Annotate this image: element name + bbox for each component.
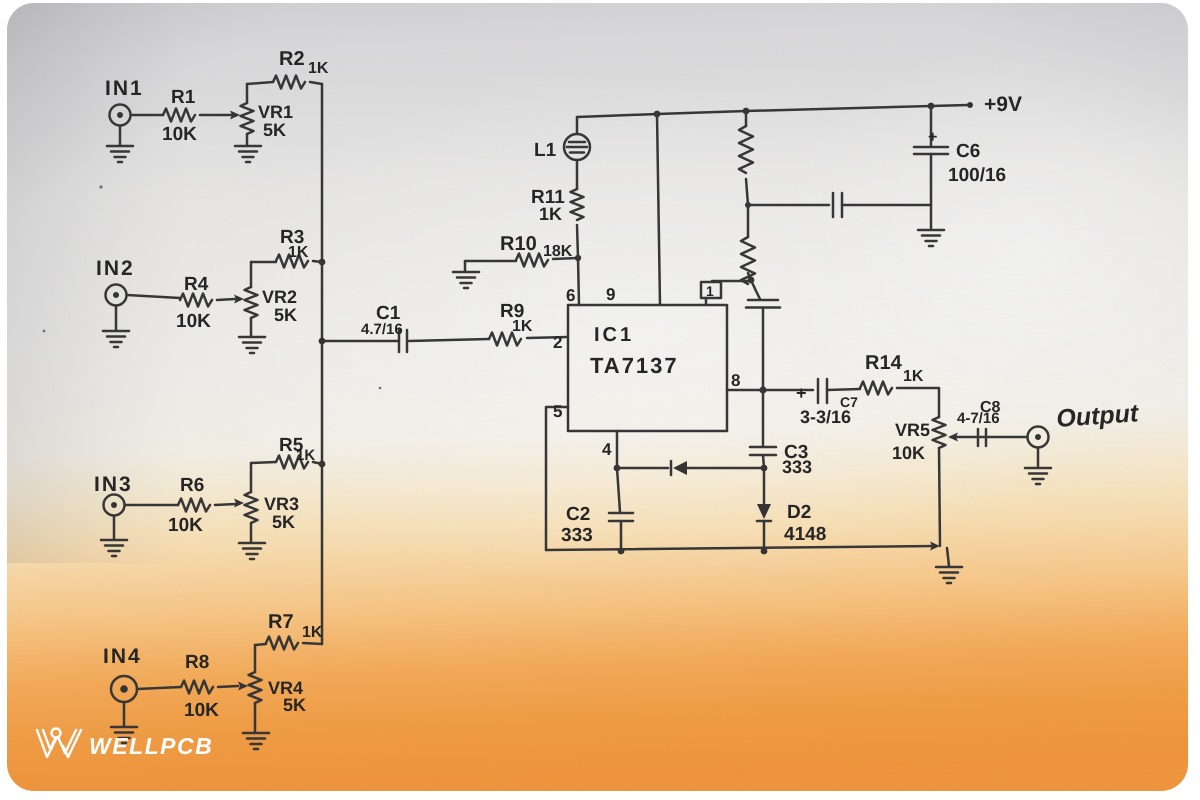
node: junction dot top bus over right chain (743, 108, 750, 115)
wire: VR4 top to R7 (255, 644, 266, 645)
svg-text:4: 4 (602, 440, 612, 459)
ground at C6 (918, 230, 944, 246)
svg-text:1K: 1K (903, 368, 924, 385)
resistor R1 (163, 109, 195, 122)
diode D2 (757, 504, 771, 521)
potentiometer VR2 (245, 287, 258, 318)
resistor R5 (276, 456, 308, 469)
ground at bottom bus right (947, 548, 949, 566)
svg-text:10K: 10K (168, 515, 203, 536)
node: bus junction under C2 (618, 548, 625, 555)
wire: tap to lower resistor (747, 205, 750, 237)
potentiometer VR5 (933, 417, 946, 448)
wire: VR5 bottom to bus (939, 448, 940, 546)
schematic ink (101, 76, 1051, 750)
svg-text:4148: 4148 (784, 524, 826, 545)
svg-text:10K: 10K (176, 311, 211, 332)
wire: IN1 to R1 (131, 114, 163, 117)
wire: VR4 top to R7 level (254, 645, 257, 672)
wire: R3 to bus (313, 261, 322, 262)
node: pin 4 junction (614, 465, 621, 472)
wire: C8 to output jack (986, 436, 1027, 439)
svg-text:VR3: VR3 (264, 494, 299, 514)
node: junction dot top bus at C6 (928, 103, 935, 110)
svg-text:D2: D2 (787, 502, 811, 523)
wire: ground to R10 (465, 260, 516, 263)
connector IN3 jack (104, 495, 125, 516)
diode D1 (671, 461, 687, 475)
svg-text:VR5: VR5 (895, 420, 930, 440)
wire: pin 1 into IC top (705, 298, 708, 305)
svg-text:IN2: IN2 (96, 257, 135, 280)
svg-text:R14: R14 (865, 352, 903, 374)
ground at R10 left (464, 261, 467, 271)
svg-text:1K: 1K (539, 204, 562, 224)
svg-text:+: + (928, 129, 937, 146)
svg-text:1K: 1K (308, 60, 329, 77)
wire: C3 to diode node (763, 455, 764, 468)
wire: pin4 node down to C2 (617, 468, 620, 512)
resistor R4 (180, 294, 212, 307)
pin 1 label box (701, 282, 721, 298)
wire: bus to C1 (322, 340, 399, 343)
resistor R14 (860, 382, 892, 395)
resistor upper right (739, 126, 753, 173)
capacitor C1 plates (399, 330, 407, 352)
logo WELLPCB (37, 729, 213, 760)
ground at VR2 (250, 318, 253, 336)
svg-text:VR2: VR2 (262, 287, 297, 307)
svg-text:100/16: 100/16 (948, 165, 1006, 186)
wire: +9V top supply bus (577, 106, 931, 117)
svg-text:R6: R6 (180, 475, 204, 496)
wire: node down to cap (751, 280, 760, 299)
wire: VR2 top to R3 (251, 261, 276, 264)
connector IN4 jack (111, 676, 137, 702)
svg-text:1: 1 (706, 283, 714, 299)
wire: node to D2 (763, 468, 766, 504)
wire: pin4 node to D1 (617, 467, 668, 470)
svg-text:1K: 1K (296, 447, 315, 464)
svg-text:R4: R4 (184, 274, 209, 295)
svg-text:333: 333 (782, 457, 812, 477)
svg-text:+9V: +9V (984, 93, 1022, 116)
svg-text:4-7/16: 4-7/16 (957, 410, 1000, 427)
potentiometer VR1 (241, 103, 254, 134)
resistor R7 (266, 637, 298, 650)
wire: C7 to R14 (827, 389, 860, 390)
node: tap junction to C6 line (745, 202, 751, 208)
resistor R2 (273, 76, 305, 89)
wire: cap to C6 vertical (842, 204, 931, 207)
capacitor C6 plates (914, 147, 948, 154)
wire: R8 to VR4 arrow (218, 686, 238, 687)
wire: bottom bus (546, 546, 935, 550)
wiper arrow VR5 (957, 436, 985, 439)
resistor R10 (516, 254, 548, 267)
svg-text:R7: R7 (268, 611, 294, 633)
resistor R11 (571, 189, 584, 220)
arrow: bus end (930, 542, 940, 551)
node: junction dot top bus over pin9 (654, 111, 661, 118)
wire: pin 1 horizontal (712, 280, 751, 283)
resistor R8 (181, 681, 213, 694)
node: bus dot at C1 (319, 338, 326, 345)
svg-text:3-3/16: 3-3/16 (800, 407, 851, 427)
node: junction R10/R11/pin6 (575, 255, 581, 261)
node: +9V terminal dot (967, 102, 973, 108)
svg-text:333: 333 (561, 525, 593, 546)
potentiometer VR4 (249, 672, 262, 703)
svg-text:R1: R1 (171, 87, 196, 108)
wire: pin 9 lead from bus to IC (657, 114, 660, 305)
node: junction D1/D2/C3 (761, 465, 768, 472)
potentiometer VR3 (245, 492, 258, 523)
svg-text:1K: 1K (288, 244, 309, 261)
wire: IN3 to R6 (125, 504, 178, 507)
ground at VR4 (254, 703, 257, 732)
connector IN2 jack (106, 285, 127, 306)
wire: stub to +9V terminal (931, 105, 968, 106)
svg-text:6: 6 (566, 286, 575, 305)
node: pin 8 junction (759, 386, 766, 393)
ground at IN4 (123, 702, 126, 726)
connector Output jack (1028, 427, 1049, 448)
svg-text:8: 8 (731, 371, 740, 390)
wire: R1 to VR1 arrow (200, 114, 231, 117)
ground at output jack (1037, 448, 1040, 468)
wire: R7 to bus corner (303, 643, 322, 644)
wire: pin 6 lead into IC (578, 258, 579, 305)
ground at VR1 (246, 134, 249, 145)
svg-text:2: 2 (553, 333, 562, 352)
resistor R3 (276, 255, 308, 268)
capacitor C7 plates (818, 379, 827, 403)
wire: VR1 top to R2 (247, 82, 273, 84)
capacitor C3 plates (750, 447, 776, 455)
wire: left mixing bus (321, 84, 324, 644)
svg-text:L1: L1 (534, 140, 557, 161)
wire: IN2 to R4 (127, 295, 180, 298)
node: bus junction under D2 (761, 548, 768, 555)
wire: L1 to R11 (576, 160, 579, 189)
wire: pin8 node to C7 (763, 389, 813, 392)
wire: R5 to bus (313, 462, 322, 464)
wire: pin 8 lead (727, 389, 763, 392)
svg-text:10K: 10K (184, 700, 219, 721)
svg-text:4.7/16: 4.7/16 (361, 321, 403, 338)
svg-text:R2: R2 (279, 48, 305, 70)
wire: R10 to node (553, 258, 578, 259)
wire: IN4 to R8 (137, 687, 181, 689)
wire: pin 2 lead (527, 337, 568, 338)
wire: pin8 node down to C3 (762, 390, 765, 446)
wire: R11 to node (577, 225, 578, 258)
capacitor (feedback) plates (833, 193, 842, 217)
wire: C1 to R9 (409, 339, 489, 341)
svg-text:1K: 1K (512, 318, 533, 335)
ground at IN1 (119, 126, 122, 145)
svg-text:IN1: IN1 (105, 77, 144, 100)
wire: cap to pin8 node (762, 308, 765, 391)
svg-text:10K: 10K (162, 124, 197, 145)
resistor R6 (178, 499, 210, 512)
wire: C6 lower lead (930, 154, 933, 229)
ground at VR3 (250, 523, 253, 542)
wire: VR3 top to R5 (251, 462, 276, 463)
svg-text:10K: 10K (892, 443, 925, 463)
svg-text:C2: C2 (566, 504, 590, 525)
svg-text:5K: 5K (272, 512, 295, 532)
connector IN1 jack (110, 105, 131, 126)
node: bus dot at R3 (319, 259, 326, 266)
lamp L1 (564, 134, 590, 160)
wire: R14 to corner (897, 388, 939, 417)
svg-text:R10: R10 (500, 233, 537, 255)
wire: C6 top lead (930, 106, 933, 146)
svg-text:IN4: IN4 (103, 645, 142, 668)
svg-text:5: 5 (553, 402, 562, 421)
node: junction pin1/cap branch (748, 277, 755, 284)
svg-text:5K: 5K (283, 695, 306, 715)
resistor lower right (741, 237, 755, 284)
capacitor C2 plates (609, 513, 633, 521)
wire: between upper resistor and tap (746, 179, 748, 205)
wire: L1 branch from bus (576, 117, 579, 134)
paper specks (43, 185, 382, 389)
svg-text:C6: C6 (956, 141, 980, 162)
node: bus dot at R5 (319, 461, 326, 468)
wire: R6 to VR3 arrow (215, 504, 236, 505)
wire: VR3 top to R5 level (250, 463, 253, 492)
resistor chain upper (right side) wire from bus (745, 111, 748, 126)
ground at IN3 (113, 516, 116, 539)
ground at IN2 (115, 306, 118, 330)
svg-text:WELLPCB: WELLPCB (89, 733, 213, 759)
IC U1 TA7137 body (568, 305, 727, 431)
wire: pin 4 lead down (616, 431, 619, 468)
svg-text:5K: 5K (274, 305, 297, 325)
wire: C2 to bus (620, 521, 623, 551)
svg-text:5K: 5K (263, 120, 286, 140)
svg-text:9: 9 (606, 285, 615, 304)
wire: tap to coupling cap (748, 204, 829, 207)
wire: pin 5 lead and down (546, 407, 568, 550)
svg-text:TA7137: TA7137 (590, 353, 679, 378)
wire: VR2 top up to R3 (250, 262, 253, 287)
logo mark W (37, 729, 81, 758)
svg-text:R8: R8 (185, 652, 209, 673)
capacitor C8 plates (978, 429, 986, 446)
capacitor plates (x763 branch top) (746, 300, 780, 308)
wire: R2 to bus corner (310, 82, 322, 84)
wire: R4 to VR2 arrow (217, 299, 235, 300)
svg-text:18K: 18K (543, 243, 573, 260)
wire: D1 to C3 node (687, 467, 764, 470)
wire: D2 to bottom bus (763, 521, 766, 551)
svg-text:IC1: IC1 (594, 324, 634, 346)
svg-text:Output: Output (1055, 399, 1140, 433)
wire: lower resistor to node (748, 273, 751, 280)
resistor R9 (489, 333, 521, 346)
wire: VR1 top to R2 level (246, 84, 249, 103)
svg-text:IN3: IN3 (94, 473, 133, 496)
svg-text:VR1: VR1 (258, 102, 293, 122)
svg-text:1K: 1K (302, 624, 323, 641)
svg-text:+: + (796, 383, 807, 403)
